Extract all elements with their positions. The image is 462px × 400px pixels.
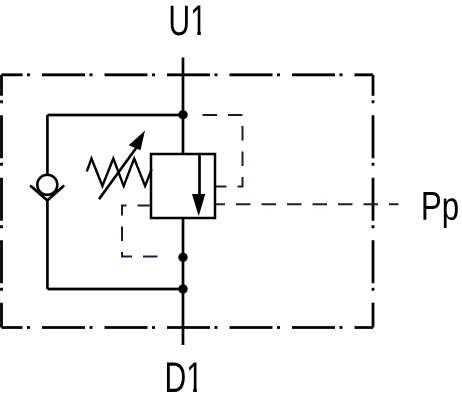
svg-text:Pp: Pp [421, 184, 459, 229]
svg-text:U1: U1 [168, 0, 206, 44]
svg-text:D1: D1 [165, 353, 203, 400]
